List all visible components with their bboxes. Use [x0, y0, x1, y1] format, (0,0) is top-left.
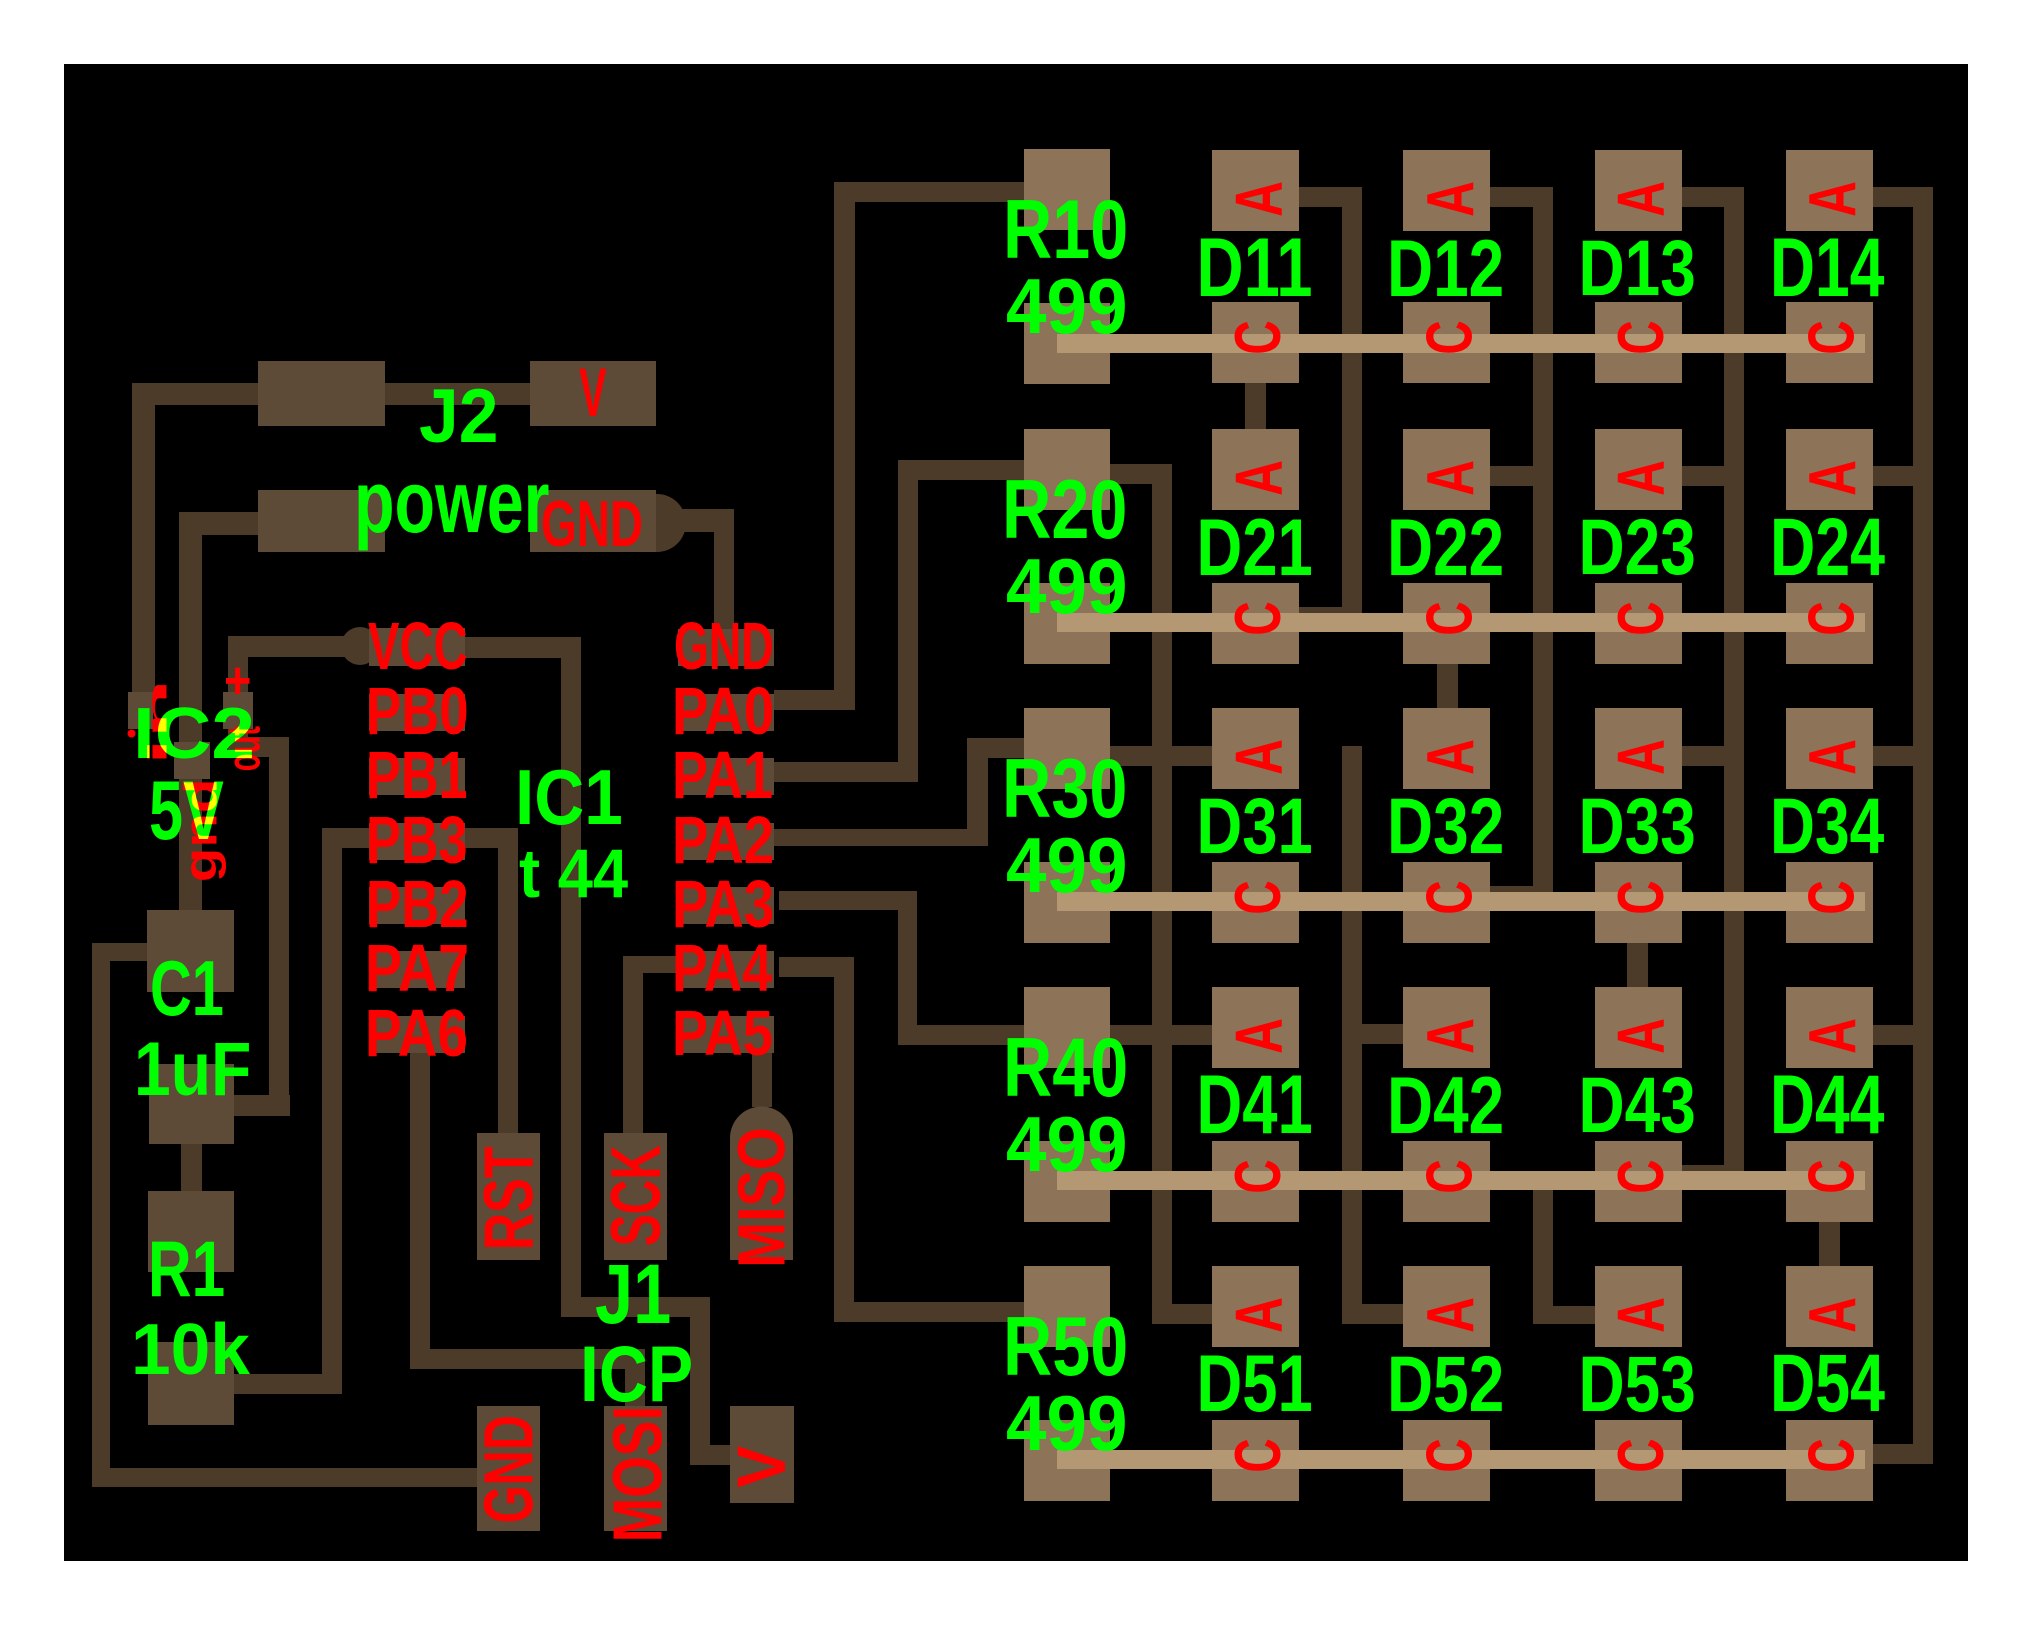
pad J1 MOSI	[604, 1406, 667, 1531]
wire resistor chain vertical	[1152, 464, 1172, 1324]
wire RST vertical	[498, 828, 518, 1133]
svg-text:D42: D42	[1387, 1061, 1504, 1151]
wire GND stadium bar	[610, 494, 657, 552]
svg-text:D12: D12	[1387, 224, 1504, 314]
svg-text:power: power	[354, 454, 549, 551]
pad D53 anode	[1595, 1266, 1682, 1347]
wire PA1 right	[774, 762, 918, 782]
pad J2 pin V+	[258, 361, 385, 426]
pad D21 cathode	[1212, 583, 1299, 664]
pad D41 anode	[1212, 987, 1299, 1068]
wire PA0 to R10 vertical	[834, 182, 855, 710]
svg-text:D51: D51	[1197, 1339, 1313, 1429]
wire VCC horizontal	[228, 636, 370, 657]
wire D13 anode stub	[1682, 187, 1744, 207]
pad J1 V	[730, 1406, 794, 1503]
pad C1 top	[147, 910, 234, 992]
pad D24 cathode	[1786, 583, 1873, 664]
wire into R50	[834, 1302, 1024, 1322]
svg-text:499: 499	[1006, 822, 1127, 909]
wire D23 anode stub	[1682, 466, 1744, 486]
wire VCC pad right	[465, 637, 581, 658]
wire R40 right	[1110, 1025, 1152, 1045]
pad R30 bottom	[1024, 862, 1110, 943]
wire down to IC1 GND pin	[714, 509, 734, 632]
svg-text:1uF: 1uF	[134, 1026, 251, 1112]
wire D34 anode stub	[1873, 746, 1933, 766]
pad D41 cathode	[1212, 1141, 1299, 1222]
wire VCC vertical down	[561, 637, 581, 1317]
pad IC1 GND	[678, 629, 774, 666]
wire GND left rail	[92, 943, 110, 1487]
pad J1 SCK	[604, 1133, 667, 1260]
pad D42 cathode	[1403, 1141, 1490, 1222]
pad D12 anode	[1403, 150, 1490, 231]
svg-text:D54: D54	[1770, 1338, 1885, 1429]
pad IC2 out	[223, 692, 253, 729]
wire GND stadium cap	[628, 494, 686, 552]
wire D31 anode chain down	[1342, 746, 1362, 1324]
wire C1 bottom to R1 top	[181, 1144, 202, 1191]
wire bus row 1	[1057, 334, 1865, 353]
svg-text:499: 499	[1006, 543, 1127, 630]
wire D44 anode stub	[1873, 1025, 1933, 1045]
pad D11 anode	[1212, 150, 1299, 231]
svg-text:D31: D31	[1197, 782, 1313, 870]
pad D51 anode	[1212, 1266, 1299, 1347]
wire PA4 right	[779, 957, 854, 977]
wire bus4 to D53 vertical	[1533, 1171, 1553, 1324]
svg-text:D24: D24	[1770, 502, 1885, 593]
wire bus row 4	[1057, 1171, 1865, 1190]
pad D21 anode	[1212, 429, 1299, 510]
pad C1 bottom	[149, 1064, 234, 1144]
pad IC1 PA6	[369, 1016, 465, 1053]
wire to R50 vertical	[834, 957, 854, 1322]
wire bus row 3	[1057, 892, 1865, 911]
pad D34 cathode	[1786, 862, 1873, 943]
pad IC1 PB2	[369, 887, 465, 924]
wire PB3 to RST	[465, 828, 518, 848]
wire down to MOSI pad	[625, 1349, 645, 1406]
svg-text:5V: 5V	[149, 765, 224, 857]
wire R1 bottom right	[234, 1374, 342, 1394]
svg-text:D34: D34	[1770, 783, 1885, 871]
wire D14 anode stub	[1873, 187, 1933, 207]
wire PA6 down	[410, 1053, 430, 1369]
pad D14 cathode	[1786, 302, 1873, 383]
wire J2 V down to IC2 in	[132, 383, 155, 692]
pad D54 anode	[1786, 1266, 1873, 1347]
wire J2 pin1 to V pad	[132, 383, 530, 405]
pad D54 cathode	[1786, 1420, 1873, 1501]
pad D32 anode	[1403, 708, 1490, 789]
wire PA5 to MISO	[752, 1052, 772, 1107]
wire PA3 right	[779, 891, 917, 910]
pad R20 top	[1024, 429, 1110, 510]
pad D23 cathode	[1595, 583, 1682, 664]
svg-text:D43: D43	[1579, 1062, 1696, 1150]
wire R30 right	[1110, 746, 1152, 766]
wire into D41 anode	[1172, 1025, 1212, 1045]
pad D43 anode	[1595, 987, 1682, 1068]
wire PA2 right	[774, 829, 988, 846]
wire VCC stub cap	[341, 627, 379, 665]
wire D54 cathode stub	[1873, 1444, 1933, 1464]
pad R1 top	[148, 1191, 234, 1272]
svg-text:IC2: IC2	[133, 693, 255, 773]
pad IC1 PB1	[369, 758, 465, 795]
svg-text:D13: D13	[1579, 225, 1696, 313]
svg-text:499: 499	[1006, 1101, 1127, 1188]
wire GND stadium to IC1	[657, 509, 734, 532]
svg-text:D14: D14	[1770, 220, 1884, 314]
pad IC1 PB0	[369, 694, 465, 731]
pad R40 top	[1024, 987, 1110, 1068]
wire SCK vertical	[623, 956, 643, 1133]
wire into J1 V pad	[690, 1445, 730, 1465]
wire IC2 out down	[228, 729, 248, 757]
svg-text:t 44: t 44	[519, 835, 629, 912]
wire into R10	[834, 182, 1024, 202]
wire D32 cathode stub	[1490, 886, 1553, 906]
svg-text:D23: D23	[1579, 504, 1696, 592]
pad D13 cathode	[1595, 302, 1682, 383]
wire into R40	[898, 1025, 1024, 1045]
pad D33 cathode	[1595, 862, 1682, 943]
pad IC1 PA5	[678, 1016, 774, 1053]
pad D44 anode	[1786, 987, 1873, 1068]
svg-text:10k: 10k	[131, 1310, 250, 1391]
wire D11 anode stub	[1299, 187, 1362, 207]
pad R1 bottom	[148, 1342, 234, 1425]
wire IC2 out up	[228, 657, 248, 692]
wire column 1 vertical	[1342, 187, 1362, 627]
wire D11 cathode to D21 anode	[1245, 383, 1266, 429]
pad J2 pin GND	[258, 490, 385, 552]
svg-text:J2: J2	[419, 373, 498, 459]
pad IC1 PA7	[369, 951, 465, 988]
svg-text:D11: D11	[1197, 220, 1313, 314]
wire into D31 anode	[1172, 746, 1212, 766]
wire into C1 bottom	[234, 1095, 290, 1116]
svg-text:D22: D22	[1387, 503, 1504, 593]
svg-text:R1: R1	[148, 1224, 225, 1313]
wire D22 cathode to D32 anode	[1437, 664, 1458, 708]
wire R1 to PB3 vertical	[322, 828, 342, 1394]
pad J1 GND	[477, 1406, 540, 1531]
svg-text:D33: D33	[1579, 783, 1696, 871]
wire bus row 5	[1057, 1450, 1865, 1469]
wire D12 anode stub	[1490, 187, 1553, 207]
pad D11 cathode	[1212, 302, 1299, 383]
wire jog right	[228, 737, 289, 757]
pad D22 anode	[1403, 429, 1490, 510]
pad D53 cathode	[1595, 1420, 1682, 1501]
svg-text:IC1: IC1	[515, 753, 623, 841]
pad D23 anode	[1595, 429, 1682, 510]
wire GND bottom rail	[92, 1468, 477, 1487]
pad D51 cathode	[1212, 1420, 1299, 1501]
svg-text:J1: J1	[595, 1247, 671, 1342]
pad D12 cathode	[1403, 302, 1490, 383]
pad D52 anode	[1403, 1266, 1490, 1347]
polarity dot IC2	[128, 730, 136, 738]
pad R40 bottom	[1024, 1141, 1110, 1222]
pad IC1 PB3	[369, 823, 465, 860]
pad J2 V	[530, 361, 656, 426]
pad D44 cathode	[1786, 1141, 1873, 1222]
pad R10 bottom	[1024, 303, 1110, 384]
wire bus row 2	[1057, 613, 1865, 632]
wire D24 anode stub	[1873, 466, 1933, 486]
pad R10 top	[1024, 149, 1110, 230]
svg-text:D32: D32	[1387, 783, 1504, 871]
svg-text:D52: D52	[1387, 1341, 1504, 1429]
wire into D53 anode	[1553, 1306, 1595, 1324]
wire D21 cathode stub	[1299, 607, 1362, 627]
wire into D51 anode	[1172, 1304, 1212, 1324]
pad IC2 gnd	[174, 742, 210, 779]
svg-text:D44: D44	[1770, 1057, 1884, 1151]
wire column 3 vertical	[1724, 187, 1744, 1185]
wire into R30	[967, 738, 1024, 758]
wire down to V pad row	[690, 1297, 710, 1465]
svg-text:499: 499	[1006, 1380, 1127, 1467]
pad IC1 PA4	[678, 951, 774, 988]
pad R50 bottom	[1024, 1420, 1110, 1501]
pad IC1 PA3	[678, 887, 774, 924]
pad D42 anode	[1403, 987, 1490, 1068]
pad D52 cathode	[1403, 1420, 1490, 1501]
pad R20 bottom	[1024, 583, 1110, 664]
wire D44 cathode to D54 anode	[1819, 1222, 1840, 1266]
wire into D42 anode	[1362, 1024, 1403, 1044]
svg-text:ICP: ICP	[580, 1329, 693, 1418]
wire PA2 to R30 vertical	[967, 738, 988, 846]
pad IC1 PA1	[678, 758, 774, 795]
wire PA0 right	[774, 690, 855, 710]
svg-text:C1: C1	[150, 945, 224, 1032]
wire PA1 to R20 vertical	[898, 460, 918, 782]
wire C1 top left	[92, 943, 147, 961]
pad IC2 in	[128, 692, 153, 729]
pad IC1 PA2	[678, 823, 774, 860]
pad J1 MISO	[730, 1107, 793, 1260]
pad R50 top	[1024, 1266, 1110, 1347]
pad R30 top	[1024, 708, 1110, 789]
pad D24 anode	[1786, 429, 1873, 510]
svg-text:D21: D21	[1197, 503, 1313, 593]
wire VCC to J1 area	[561, 1297, 710, 1317]
wire D22 anode stub	[1490, 466, 1553, 486]
wire into PB3	[342, 828, 369, 848]
pad IC1 VCC stub	[369, 628, 465, 665]
pad D43 cathode	[1595, 1141, 1682, 1222]
pad D31 anode	[1212, 708, 1299, 789]
wire PA4 left	[623, 956, 678, 973]
pad IC1 PA0	[678, 694, 774, 731]
wire D33 cathode to D43 anode	[1627, 943, 1648, 987]
wire J2 GND down to C1	[179, 512, 202, 910]
svg-text:D53: D53	[1579, 1341, 1696, 1429]
pad J2 GND	[530, 490, 656, 552]
pad IC1 VCC	[369, 629, 465, 666]
pad D32 cathode	[1403, 862, 1490, 943]
svg-text:D41: D41	[1197, 1057, 1313, 1151]
wire column 2 vertical	[1533, 187, 1553, 906]
pad D14 anode	[1786, 150, 1873, 231]
wire into R20	[898, 460, 1024, 480]
pad D22 cathode	[1403, 583, 1490, 664]
pad J1 RST	[477, 1133, 540, 1260]
wire J2 pin2 left	[179, 512, 258, 535]
wire PA3 to R40 vertical	[898, 891, 917, 1045]
wire into D52 anode	[1362, 1304, 1403, 1324]
pad D31 cathode	[1212, 862, 1299, 943]
wire R20 right	[1110, 464, 1152, 484]
pad D13 anode	[1595, 150, 1682, 231]
wire D43 cathode stub	[1682, 1165, 1744, 1185]
wire 5V vertical	[269, 737, 289, 1116]
wire D33 anode stub	[1682, 746, 1744, 766]
pad D34 anode	[1786, 708, 1873, 789]
svg-text:499: 499	[1006, 263, 1127, 350]
wire column 4 vertical	[1913, 187, 1933, 1464]
wire MOSI horizontal	[410, 1349, 645, 1369]
pad D33 anode	[1595, 708, 1682, 789]
